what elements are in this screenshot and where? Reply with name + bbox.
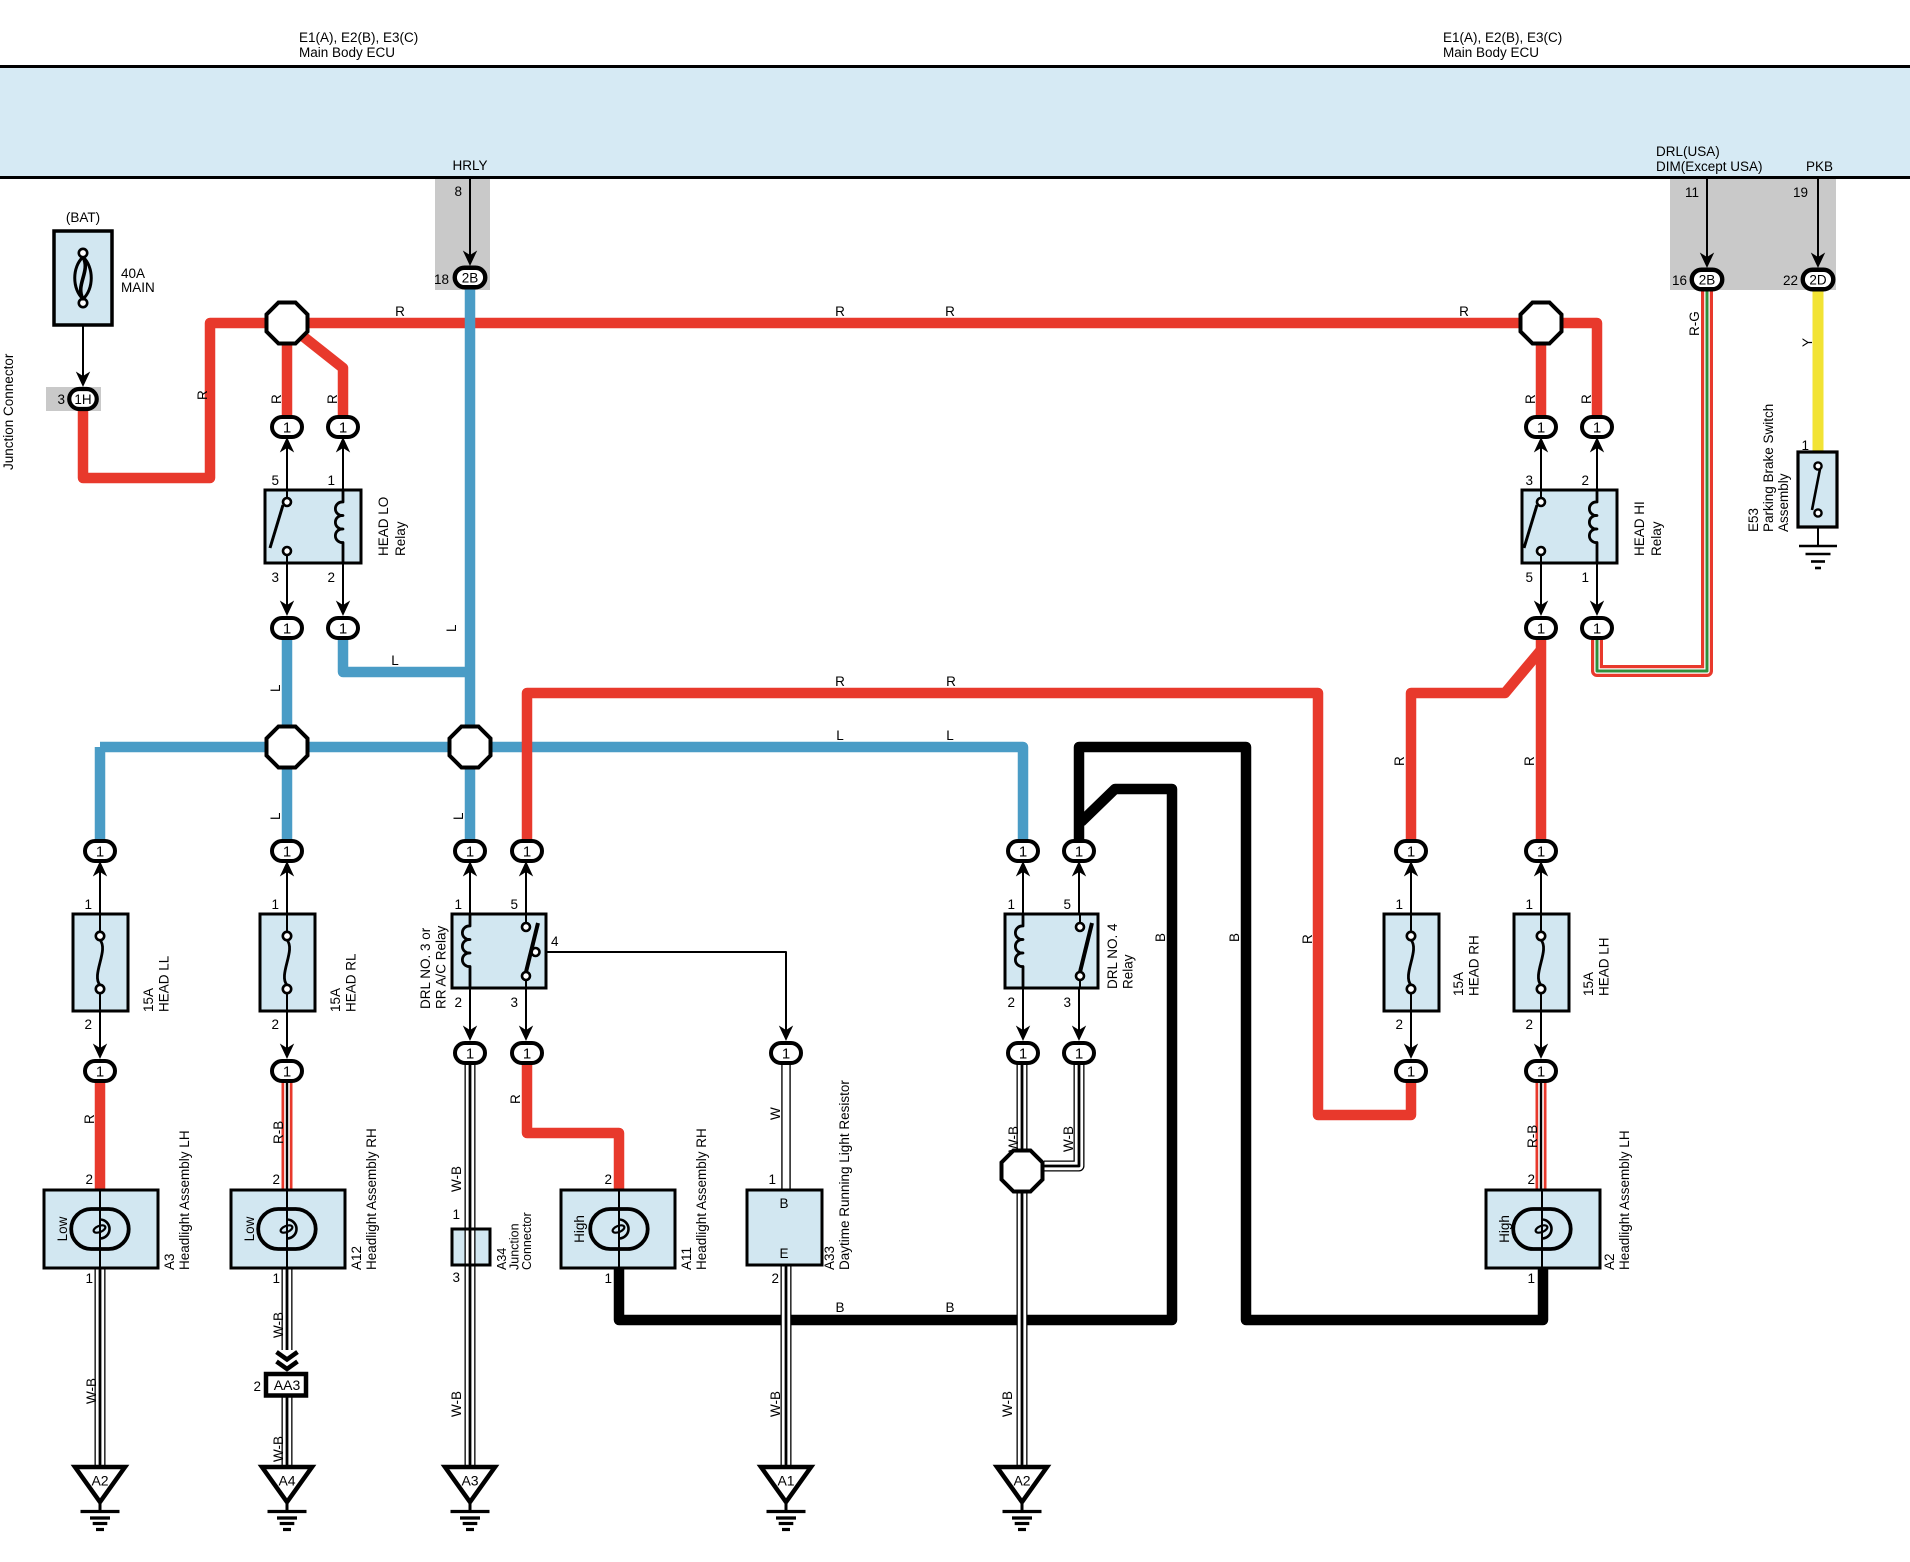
- svg-text:B: B: [779, 1196, 788, 1211]
- pin 2 HEAD HI: [1581, 437, 1604, 490]
- pin 2 DRL NO.3: [454, 988, 477, 1041]
- pin 8 HRLY link: [454, 179, 477, 266]
- fuse 15A HEAD LL: [73, 914, 172, 1012]
- pin label HRLY: [452, 158, 487, 173]
- pin 1 HEAD LO: [327, 437, 350, 490]
- svg-text:R: R: [946, 674, 956, 689]
- Main Body ECU block (top band): [0, 67, 1910, 178]
- svg-text:2: 2: [253, 1379, 261, 1394]
- svg-text:MAIN: MAIN: [121, 280, 155, 295]
- wire R HEAD HI pin5 to fuse HEAD LH: [1522, 639, 1541, 841]
- svg-text:R: R: [195, 390, 210, 400]
- wire L from ECU HRLY 2B: [444, 288, 470, 745]
- svg-text:5: 5: [1525, 570, 1533, 585]
- switch E53 parking brake: [1746, 404, 1837, 545]
- svg-text:3: 3: [57, 392, 65, 407]
- svg-text:3: 3: [1525, 473, 1533, 488]
- relay HEAD HI: [1522, 490, 1664, 563]
- svg-text:1: 1: [283, 843, 291, 860]
- svg-text:DRL(USA): DRL(USA): [1656, 144, 1720, 159]
- oval 1 below HEAD LO pin2: [328, 618, 358, 638]
- oval 1 above HEAD HI pin3: [1526, 417, 1556, 437]
- wire W-B A33 resistor to ground A1: [768, 1265, 786, 1467]
- svg-text:3: 3: [510, 995, 518, 1010]
- pin 1 DRL NO.4: [1007, 861, 1030, 914]
- svg-text:R: R: [1523, 394, 1538, 404]
- wire R drop to HEAD HI pin 3: [1523, 323, 1541, 417]
- svg-text:1: 1: [283, 620, 291, 637]
- svg-text:L: L: [268, 684, 283, 692]
- oval 1 below fuse HEAD LH: [1526, 1061, 1556, 1081]
- relay DRL NO.4: [1005, 914, 1136, 989]
- svg-text:R: R: [82, 1114, 97, 1124]
- wire W-B AA3 to ground A4: [271, 1396, 287, 1467]
- pin 2 DRL NO.4: [1007, 988, 1030, 1041]
- svg-text:R: R: [395, 304, 405, 319]
- wire R-B fuse HEAD LH to A2 headlight: [1525, 1081, 1541, 1190]
- ground A1: [761, 1467, 811, 1530]
- junction octagon L mid: [450, 727, 491, 768]
- oval 1 below DRL NO.4 pin2: [1008, 1043, 1038, 1063]
- wire L drop to fuse HEAD LL: [95, 747, 106, 842]
- wire Y ECU 2D to parking brake switch: [1800, 290, 1818, 455]
- pin 2 fuse HEAD LH: [1525, 1011, 1548, 1059]
- svg-text:R: R: [508, 1094, 523, 1104]
- svg-text:W-B: W-B: [449, 1166, 464, 1192]
- wire R drop to HEAD LO pin 1: [295, 330, 343, 417]
- svg-text:1: 1: [85, 1271, 93, 1286]
- svg-text:1: 1: [1007, 897, 1015, 912]
- svg-text:2D: 2D: [1809, 272, 1827, 287]
- wire W-B DRL NO.4 pin3 to junction: [1044, 1064, 1079, 1166]
- svg-text:1: 1: [452, 1207, 460, 1222]
- svg-text:2: 2: [1395, 1017, 1403, 1032]
- svg-text:R: R: [1459, 304, 1469, 319]
- fuse 40A MAIN (battery): [54, 210, 155, 325]
- svg-text:W-B: W-B: [449, 1391, 464, 1417]
- svg-text:L: L: [451, 812, 466, 820]
- svg-text:1: 1: [1581, 570, 1589, 585]
- connector 1H: [57, 389, 96, 409]
- pin 1 HEAD HI: [1581, 563, 1604, 616]
- svg-text:2: 2: [454, 995, 462, 1010]
- svg-text:1: 1: [327, 473, 335, 488]
- svg-text:1: 1: [96, 1063, 104, 1080]
- pin 1 fuse HEAD RL: [271, 861, 294, 914]
- relay DRL NO.3 / RR A-C: [418, 914, 546, 1009]
- svg-text:L: L: [946, 728, 954, 743]
- svg-text:1: 1: [272, 1271, 280, 1286]
- svg-text:High: High: [572, 1215, 587, 1243]
- svg-text:R-B: R-B: [1525, 1125, 1540, 1148]
- svg-text:3: 3: [452, 1270, 460, 1285]
- connector 2D (PKB): [1783, 270, 1833, 290]
- svg-text:1: 1: [283, 419, 291, 436]
- svg-text:1: 1: [466, 1045, 474, 1062]
- svg-text:A2: A2: [1013, 1473, 1030, 1489]
- ground A4: [262, 1467, 312, 1530]
- pin 1 fuse HEAD LH: [1525, 861, 1548, 914]
- svg-text:R: R: [1579, 394, 1594, 404]
- svg-text:W-B: W-B: [768, 1391, 783, 1417]
- svg-text:L: L: [836, 728, 844, 743]
- svg-text:2: 2: [771, 1271, 779, 1286]
- svg-text:1: 1: [339, 419, 347, 436]
- wire R drop to HEAD HI pin 2: [1579, 394, 1594, 404]
- pin 3 HEAD LO: [271, 563, 294, 616]
- svg-text:2: 2: [85, 1172, 93, 1187]
- svg-text:R: R: [945, 304, 955, 319]
- svg-text:1: 1: [96, 843, 104, 860]
- oval 1 above DRL NO.3 pin1: [455, 841, 485, 861]
- svg-text:18: 18: [434, 272, 449, 287]
- ground E53: [1799, 546, 1837, 568]
- connector AA3: [253, 1352, 306, 1396]
- svg-text:1: 1: [1407, 843, 1415, 860]
- svg-text:2: 2: [1525, 1017, 1533, 1032]
- svg-text:3: 3: [1063, 995, 1071, 1010]
- svg-text:1: 1: [1537, 843, 1545, 860]
- fuse 15A HEAD RL: [260, 914, 359, 1012]
- oval 1 above fuse HEAD LL: [85, 841, 115, 861]
- svg-text:A1: A1: [777, 1473, 794, 1489]
- headlight A11 assembly RH high: [561, 1128, 709, 1286]
- svg-text:1: 1: [84, 897, 92, 912]
- svg-text:L: L: [444, 624, 459, 632]
- label Main Body ECU right: [1443, 30, 1562, 60]
- svg-text:2: 2: [272, 1172, 280, 1187]
- connector shading HRLY: [435, 179, 490, 290]
- pin 2 fuse HEAD RH: [1395, 1011, 1418, 1059]
- svg-text:Y: Y: [1800, 338, 1815, 347]
- oval 1 below DRL NO.3 pin2: [455, 1043, 485, 1063]
- svg-text:W-B: W-B: [1061, 1126, 1076, 1152]
- junction octagon W-B: [1002, 1151, 1043, 1192]
- wire R fuse HEAD RH to DRL NO.3 pin 5: [527, 674, 1411, 1115]
- svg-text:2B: 2B: [462, 270, 479, 285]
- svg-text:R: R: [835, 304, 845, 319]
- pin 3 HEAD HI: [1525, 437, 1548, 490]
- wire R fuse HEAD LL to A3 headlight: [82, 1081, 100, 1190]
- oval 1 above DRL NO.3 pin5: [512, 841, 542, 861]
- oval 1 below fuse HEAD LL: [85, 1061, 115, 1081]
- svg-text:A4: A4: [278, 1473, 295, 1489]
- svg-text:15AHEAD RH: 15AHEAD RH: [1451, 935, 1482, 996]
- svg-text:HEAD LORelay: HEAD LORelay: [376, 497, 408, 556]
- svg-text:5: 5: [1063, 897, 1071, 912]
- svg-text:E: E: [779, 1246, 788, 1261]
- wire L HEAD LO pin3 drop: [268, 639, 287, 745]
- svg-text:3: 3: [271, 570, 279, 585]
- junction octagon R right: [1521, 303, 1562, 344]
- svg-text:A2: A2: [91, 1473, 108, 1489]
- fuse 15A HEAD RH: [1384, 914, 1482, 1011]
- junction connector A34 labels: [452, 1207, 534, 1285]
- svg-text:1: 1: [1075, 843, 1083, 860]
- svg-text:11: 11: [1685, 185, 1699, 200]
- oval 1 above HEAD LO pin1: [328, 417, 358, 437]
- relay HEAD LO: [265, 490, 408, 563]
- pin 11 DRL link: [1685, 179, 1714, 268]
- svg-text:(BAT): (BAT): [66, 210, 100, 225]
- svg-text:W-B: W-B: [271, 1436, 286, 1462]
- svg-text:R: R: [269, 394, 284, 404]
- wire W-B A12 headlight to AA3: [271, 1266, 287, 1350]
- svg-text:40A: 40A: [121, 266, 145, 281]
- connector shading DRL/PKB: [1670, 179, 1836, 290]
- pin 3 DRL NO.3: [510, 988, 533, 1041]
- svg-text:W: W: [768, 1107, 783, 1120]
- svg-text:19: 19: [1793, 185, 1808, 200]
- svg-text:5: 5: [510, 897, 518, 912]
- svg-text:Main Body ECU: Main Body ECU: [299, 45, 395, 60]
- svg-text:5: 5: [271, 473, 279, 488]
- svg-text:15AHEAD LL: 15AHEAD LL: [141, 955, 172, 1012]
- svg-text:1: 1: [1537, 1063, 1545, 1080]
- oval 1 above HEAD HI pin2: [1582, 417, 1612, 437]
- svg-text:R: R: [1522, 756, 1537, 766]
- svg-text:1: 1: [1537, 419, 1545, 436]
- pin 1 fuse HEAD LL: [84, 861, 107, 914]
- wire R main bus: [287, 304, 1597, 417]
- svg-text:1: 1: [454, 897, 462, 912]
- pin 2 HEAD LO: [327, 563, 350, 616]
- wire W DRL NO.3 pin4 to A33 resistor: [768, 1064, 786, 1190]
- svg-text:2: 2: [84, 1017, 92, 1032]
- svg-text:1: 1: [466, 843, 474, 860]
- wire R-B fuse HEAD RL to A12 headlight: [271, 1081, 287, 1190]
- pin 1 fuse HEAD RH: [1395, 861, 1418, 914]
- wire L HEAD LO pin2 jog: [343, 639, 468, 672]
- svg-text:16: 16: [1672, 273, 1687, 288]
- pin 3 DRL NO.4: [1063, 988, 1086, 1041]
- svg-text:1: 1: [604, 1271, 612, 1286]
- svg-text:1: 1: [523, 1045, 531, 1062]
- svg-text:E1(A), E2(B), E3(C): E1(A), E2(B), E3(C): [1443, 30, 1562, 45]
- ground A3: [445, 1467, 495, 1530]
- svg-text:1: 1: [1537, 620, 1545, 637]
- svg-text:2: 2: [271, 1017, 279, 1032]
- pin label PKB: [1806, 159, 1833, 174]
- ground A2 (front LH): [75, 1467, 125, 1530]
- wire R battery feed (1H to junction): [83, 323, 287, 478]
- oval 1 below fuse HEAD RH: [1396, 1061, 1426, 1081]
- svg-text:AA3: AA3: [274, 1377, 301, 1393]
- wire R-G ECU 2B to HEAD HI pin 1: [1597, 290, 1707, 671]
- svg-text:E53Parking Brake SwitchAssembl: E53Parking Brake SwitchAssembly: [1746, 404, 1791, 532]
- svg-text:R: R: [325, 394, 340, 404]
- svg-text:B: B: [1227, 933, 1242, 942]
- svg-text:W-B: W-B: [84, 1378, 99, 1404]
- svg-text:E1(A), E2(B), E3(C): E1(A), E2(B), E3(C): [299, 30, 418, 45]
- resistor A33 daytime running light: [747, 1080, 852, 1286]
- svg-text:1: 1: [1019, 1045, 1027, 1062]
- svg-text:Main Body ECU: Main Body ECU: [1443, 45, 1539, 60]
- junction octagon L left: [267, 727, 308, 768]
- svg-text:1: 1: [768, 1172, 776, 1187]
- pin 2 fuse HEAD LL: [84, 1011, 107, 1059]
- svg-text:R: R: [835, 674, 845, 689]
- oval 1 below HEAD HI pin1: [1582, 618, 1612, 638]
- svg-text:R: R: [1392, 756, 1407, 766]
- svg-text:1: 1: [1527, 1271, 1535, 1286]
- pin 2 fuse HEAD RL: [271, 1011, 294, 1059]
- svg-text:R: R: [1300, 934, 1315, 944]
- pin link 40A MAIN to 1H: [76, 325, 90, 387]
- svg-text:L: L: [391, 653, 399, 668]
- svg-text:Junction Connector: Junction Connector: [1, 353, 16, 470]
- pin 19 PKB link: [1793, 179, 1825, 268]
- oval 1 below DRL NO.3 pin3: [512, 1043, 542, 1063]
- svg-text:R-G: R-G: [1687, 311, 1702, 336]
- svg-text:2: 2: [327, 570, 335, 585]
- svg-text:1: 1: [523, 843, 531, 860]
- svg-text:B: B: [945, 1300, 954, 1315]
- oval 1 above fuse HEAD RL: [272, 841, 302, 861]
- svg-text:HEAD HIRelay: HEAD HIRelay: [1632, 501, 1664, 556]
- svg-text:DIM(Except USA): DIM(Except USA): [1656, 159, 1763, 174]
- wire L drop to DRL NO.3 junction: [451, 752, 470, 842]
- connector 2B (DRL): [1672, 270, 1722, 290]
- svg-text:1: 1: [1395, 897, 1403, 912]
- svg-text:A12Headlight Assembly RH: A12Headlight Assembly RH: [349, 1128, 379, 1270]
- svg-text:2B: 2B: [1699, 272, 1716, 287]
- svg-text:B: B: [1153, 933, 1168, 942]
- wire R drop to HEAD LO pin 5: [269, 323, 287, 417]
- svg-text:1: 1: [782, 1045, 790, 1062]
- svg-text:1: 1: [1593, 419, 1601, 436]
- svg-text:2: 2: [1581, 473, 1589, 488]
- pin 5 HEAD HI: [1525, 563, 1548, 616]
- oval 1 below fuse HEAD RL: [272, 1061, 302, 1081]
- svg-text:A3: A3: [461, 1473, 478, 1489]
- svg-text:W-B: W-B: [271, 1312, 286, 1338]
- wire B A2 headlight to DRL NO.4 pin 5: [1079, 747, 1543, 1320]
- svg-text:L: L: [268, 812, 283, 820]
- pin 1 DRL NO.3: [454, 861, 477, 914]
- svg-text:Low: Low: [55, 1216, 70, 1241]
- svg-text:HRLY: HRLY: [452, 158, 487, 173]
- svg-text:A3Headlight Assembly LH: A3Headlight Assembly LH: [162, 1130, 192, 1270]
- svg-text:22: 22: [1783, 273, 1798, 288]
- svg-text:W-B: W-B: [1006, 1126, 1021, 1152]
- svg-text:DRL NO. 3 orRR A/C Relay: DRL NO. 3 orRR A/C Relay: [418, 925, 449, 1009]
- svg-text:1: 1: [339, 620, 347, 637]
- oval 1 below DRL NO.4 pin3: [1064, 1043, 1094, 1063]
- pin 5 DRL NO.4: [1063, 861, 1086, 914]
- svg-text:PKB: PKB: [1806, 159, 1833, 174]
- label Junction Connector (left edge): [1, 353, 16, 470]
- svg-text:B: B: [835, 1300, 844, 1315]
- headlight A3 assembly LH low: [44, 1130, 192, 1286]
- svg-text:R-B: R-B: [271, 1121, 286, 1144]
- oval 1 above fuse HEAD LH: [1526, 841, 1556, 861]
- oval 1 below HEAD LO pin3: [272, 618, 302, 638]
- svg-text:15AHEAD LH: 15AHEAD LH: [1581, 937, 1612, 996]
- wire B A11 headlight to junction: [619, 789, 1172, 1320]
- wire W-B DRL NO.3 pin2 to ground A3 via A34: [449, 1064, 470, 1467]
- svg-text:W-B: W-B: [1000, 1391, 1015, 1417]
- wire W-B DRL NO.4 pin2 to ground A2: [1000, 1064, 1022, 1467]
- svg-text:2: 2: [1527, 1172, 1535, 1187]
- pin 5 HEAD LO: [271, 437, 294, 490]
- fuse 15A HEAD LH: [1514, 914, 1612, 1011]
- junction octagon R left: [267, 303, 308, 344]
- svg-text:15AHEAD RL: 15AHEAD RL: [328, 953, 359, 1012]
- svg-text:High: High: [1497, 1215, 1512, 1243]
- pin 5 DRL NO.3: [510, 861, 533, 914]
- ground A2 (front RH): [997, 1467, 1047, 1530]
- svg-text:A34JunctionConnector: A34JunctionConnector: [495, 1212, 534, 1270]
- svg-text:4: 4: [551, 934, 559, 949]
- svg-text:1: 1: [1525, 897, 1533, 912]
- svg-text:1: 1: [283, 1063, 291, 1080]
- oval 1 above DRL NO.4 pin5: [1064, 841, 1094, 861]
- pin label DRL/DIM: [1656, 144, 1763, 174]
- oval 1 above HEAD LO pin5: [272, 417, 302, 437]
- svg-text:Low: Low: [242, 1216, 257, 1241]
- svg-text:1: 1: [1407, 1063, 1415, 1080]
- pin 4 DRL NO.3 to A33 resistor: [546, 934, 793, 1187]
- svg-text:2: 2: [604, 1172, 612, 1187]
- wire L main bus: [100, 728, 1023, 842]
- headlight A2 assembly LH high: [1486, 1130, 1632, 1286]
- svg-text:DRL NO. 4Relay: DRL NO. 4Relay: [1105, 923, 1136, 989]
- oval 1 below HEAD HI pin5: [1526, 618, 1556, 638]
- svg-text:A33Daytime Running Light Resis: A33Daytime Running Light Resistor: [822, 1080, 852, 1270]
- oval 1 A33 resistor feed: [771, 1043, 801, 1063]
- junction connector A34 box: [452, 1229, 490, 1265]
- wire W-B A3 headlight to ground A2: [84, 1266, 100, 1467]
- svg-text:2: 2: [1007, 995, 1015, 1010]
- oval 1 above fuse HEAD RH: [1396, 841, 1426, 861]
- oval 1 above DRL NO.4 pin1: [1008, 841, 1038, 861]
- headlight A12 assembly RH low: [231, 1128, 379, 1286]
- svg-text:1: 1: [1019, 843, 1027, 860]
- pin 1 E53 link: [1801, 438, 1809, 453]
- svg-text:1: 1: [271, 897, 279, 912]
- svg-text:A2Headlight Assembly LH: A2Headlight Assembly LH: [1602, 1130, 1632, 1270]
- svg-text:A11Headlight Assembly RH: A11Headlight Assembly RH: [679, 1128, 709, 1270]
- wire L drop to DRL NO.3 pin 1: [268, 752, 287, 842]
- svg-text:1: 1: [1075, 1045, 1083, 1062]
- label Main Body ECU left: [299, 30, 418, 60]
- connector 2B (HRLY): [434, 268, 485, 288]
- svg-text:8: 8: [454, 184, 462, 199]
- wire R HEAD HI pin5 to fuse HEAD RH: [1392, 650, 1541, 841]
- svg-text:1H: 1H: [74, 392, 91, 407]
- wire R DRL NO.3 pin 3 to A11 headlight: [508, 1063, 619, 1190]
- connector shading 1H: [46, 387, 101, 411]
- svg-text:1: 1: [1593, 620, 1601, 637]
